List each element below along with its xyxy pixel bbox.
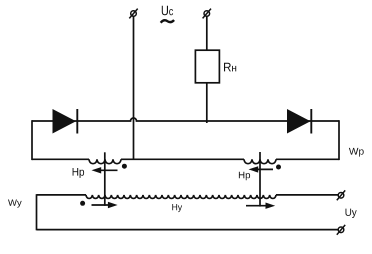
terminal X2 (AC input right) [203, 9, 211, 19]
control rail right segment to terminal [276, 194, 338, 196]
winding Hp right [244, 159, 276, 163]
winding Hy [86, 195, 276, 199]
polarity dot right Hp [276, 165, 281, 170]
terminal X1 (AC input left) [129, 9, 137, 19]
middle rail right segment [276, 158, 339, 160]
terminal X3 (control output top) [337, 190, 345, 200]
control loop left vertical [36, 194, 38, 230]
label Hp right [239, 172, 250, 181]
wire right edge of working loop [338, 120, 340, 160]
arrow right Hp (points left) [249, 166, 274, 172]
middle rail left segment [32, 158, 89, 160]
arrow left Hy (points right) [92, 202, 118, 208]
terminal X4 (control output bottom) [337, 225, 345, 235]
wire top bus with crossover hump at x=133.5 [32, 118, 339, 121]
label Wp [349, 148, 364, 157]
resistor RH [195, 50, 219, 83]
arrow left Hp (points left) [92, 167, 118, 173]
label RH [224, 63, 236, 72]
wire X2 down to resistor [206, 16, 208, 50]
diode VD2 [287, 109, 311, 134]
polarity dot Hy [80, 201, 85, 206]
label Uc [162, 6, 173, 16]
label Hy [172, 204, 182, 212]
polarity dot left Hp [122, 164, 127, 169]
wire left edge of working loop [31, 120, 33, 160]
winding Hp left [89, 159, 121, 163]
label Hp left [73, 168, 85, 178]
diode VD1 [53, 109, 78, 134]
AC tilde symbol [161, 20, 174, 23]
core line left [104, 152, 106, 206]
wire X1 down to middle rail [133, 16, 135, 158]
wire resistor to top bus [206, 83, 208, 123]
middle rail center segment [121, 158, 244, 160]
arrow right Hy (points right) [246, 203, 275, 209]
control rail left segment [37, 194, 87, 196]
core line right [259, 152, 261, 207]
bottom bus [37, 229, 339, 231]
label Uy [346, 209, 357, 218]
label Wy [8, 200, 22, 208]
